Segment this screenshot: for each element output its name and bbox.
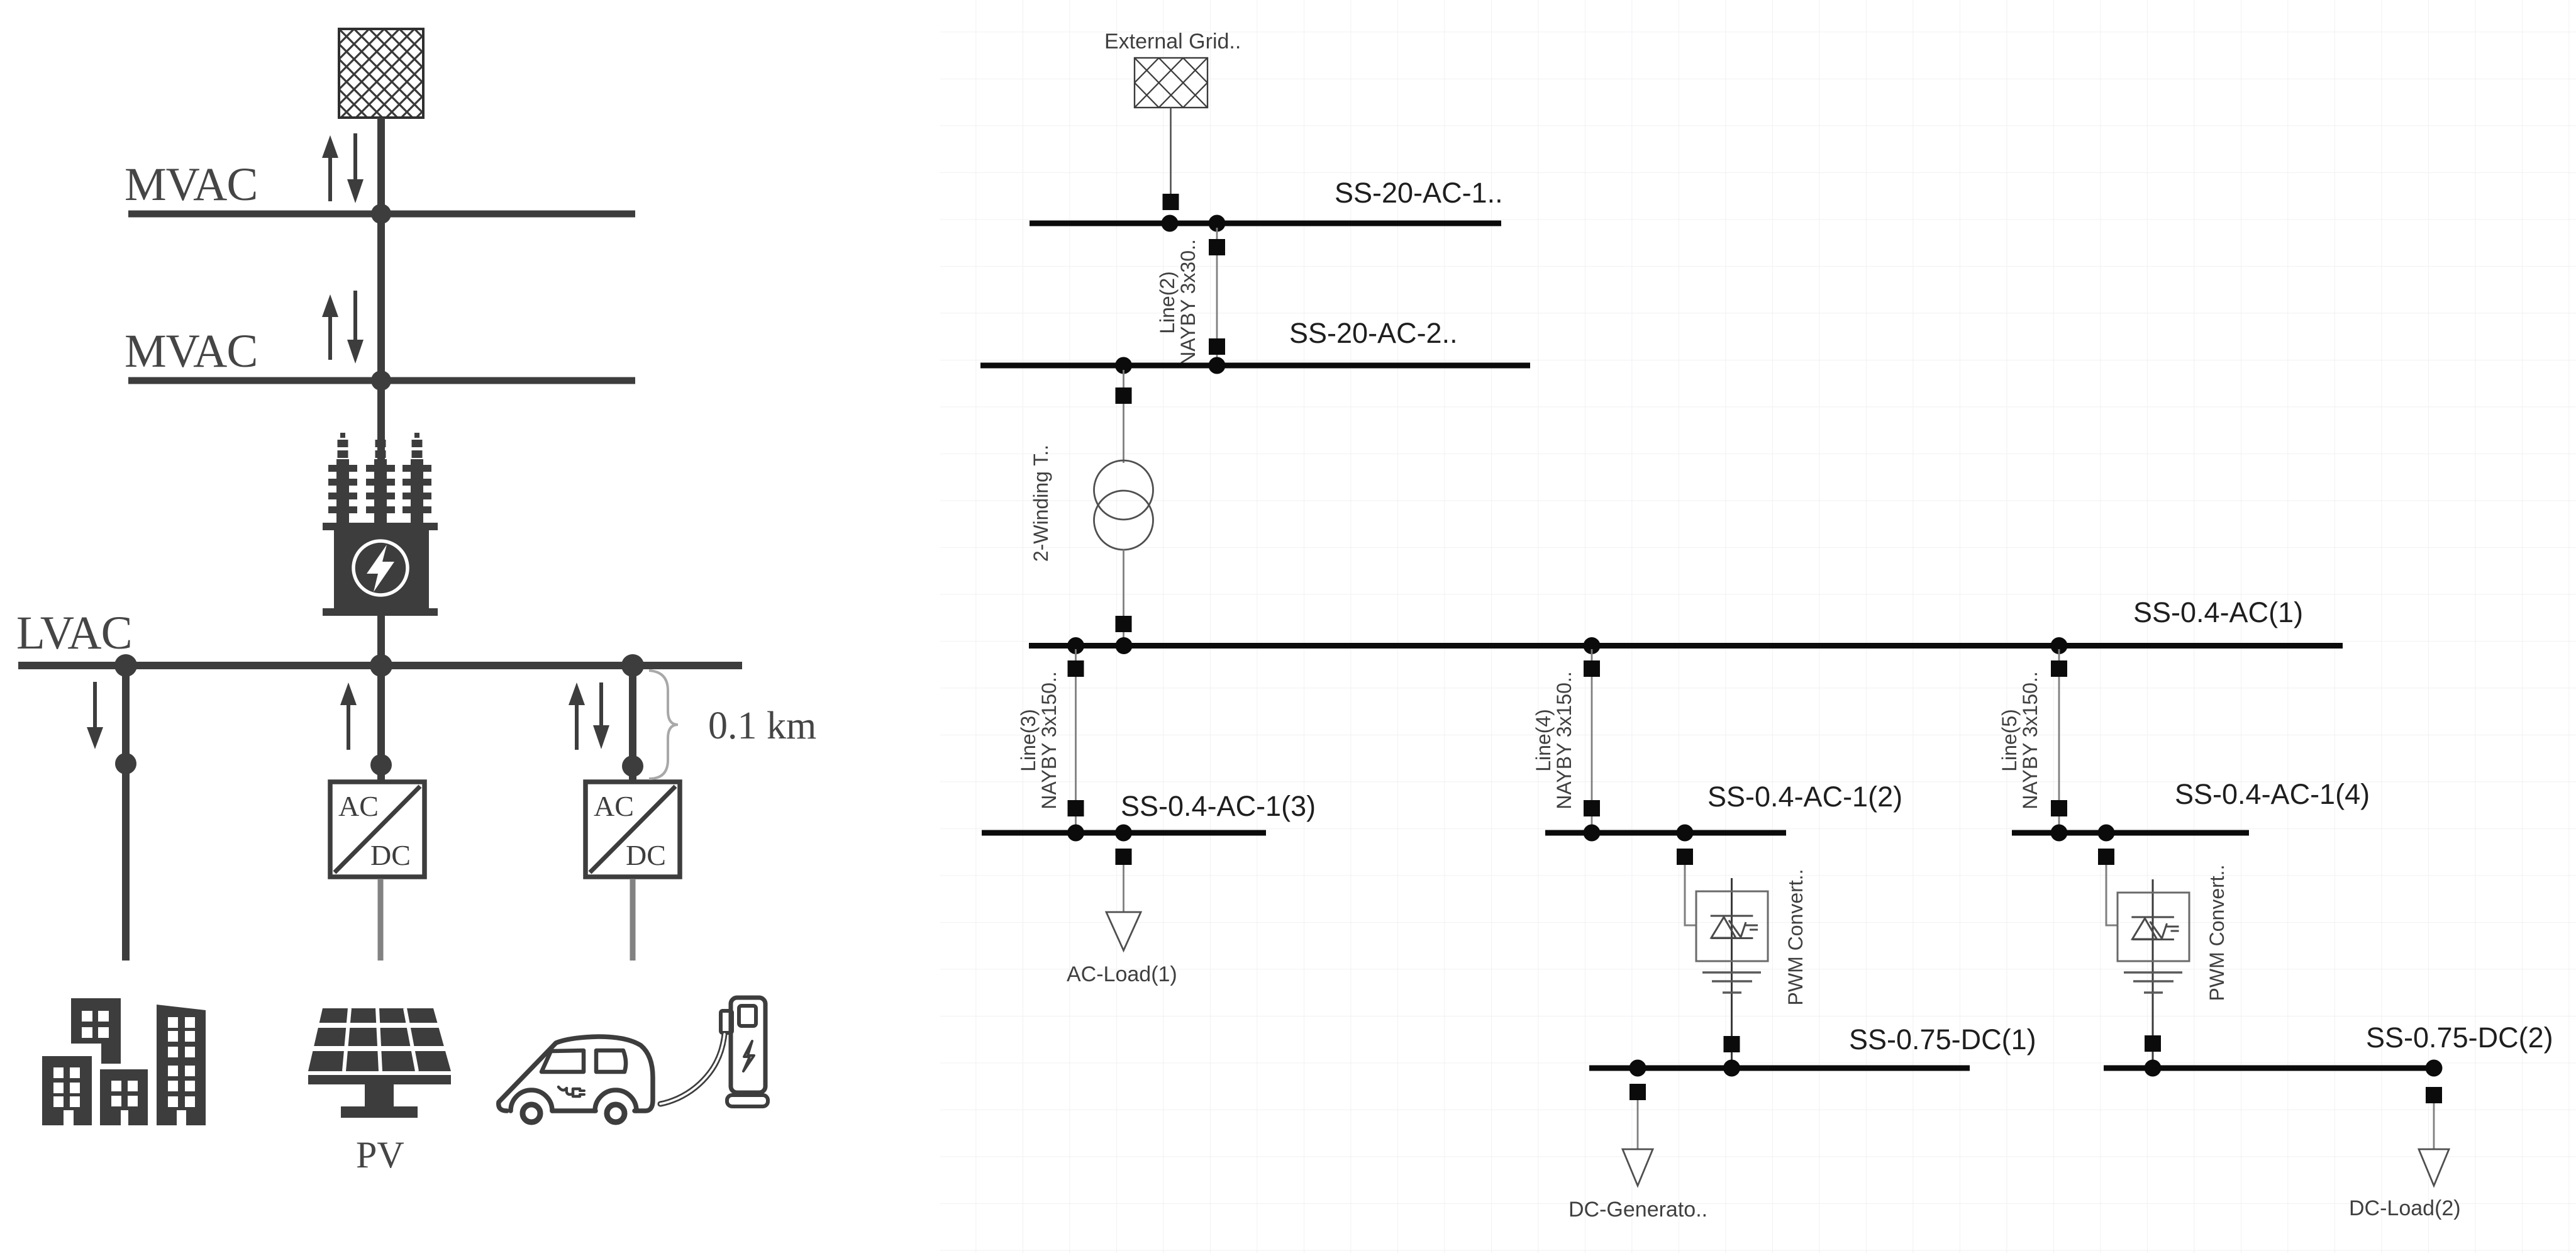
svg-text:MVAC: MVAC [125, 325, 257, 377]
svg-text:SS-0.4-AC-1(4): SS-0.4-AC-1(4) [2175, 778, 2370, 810]
svg-text:0.1 km: 0.1 km [708, 704, 816, 747]
svg-text:SS-0.4-AC-1(2): SS-0.4-AC-1(2) [1707, 781, 1902, 813]
svg-text:AC: AC [338, 790, 379, 822]
svg-text:SS-0.4-AC-1(3): SS-0.4-AC-1(3) [1121, 790, 1316, 822]
svg-text:DC-Load(2): DC-Load(2) [2349, 1196, 2461, 1220]
svg-text:AC-Load(1): AC-Load(1) [1067, 962, 1177, 986]
svg-text:SS-20-AC-2..: SS-20-AC-2.. [1289, 317, 1458, 349]
svg-text:AC: AC [594, 790, 634, 822]
svg-text:External Grid..: External Grid.. [1104, 30, 1241, 53]
svg-text:SS-0.75-DC(1): SS-0.75-DC(1) [1849, 1023, 2036, 1055]
svg-text:SS-0.4-AC(1): SS-0.4-AC(1) [2133, 596, 2303, 628]
svg-text:MVAC: MVAC [125, 159, 257, 211]
svg-text:DC: DC [626, 839, 666, 871]
svg-text:PWM Convert..: PWM Convert.. [2206, 865, 2228, 1001]
svg-text:PWM Convert..: PWM Convert.. [1784, 869, 1807, 1006]
svg-text:PV: PV [356, 1134, 404, 1176]
svg-text:SS-0.75-DC(2): SS-0.75-DC(2) [2366, 1022, 2553, 1054]
svg-text:DC-Generato..: DC-Generato.. [1568, 1198, 1707, 1222]
svg-text:SS-20-AC-1..: SS-20-AC-1.. [1335, 177, 1503, 209]
svg-text:DC: DC [370, 839, 411, 871]
svg-text:LVAC: LVAC [16, 607, 132, 659]
svg-text:2-Winding T..: 2-Winding T.. [1030, 445, 1052, 562]
